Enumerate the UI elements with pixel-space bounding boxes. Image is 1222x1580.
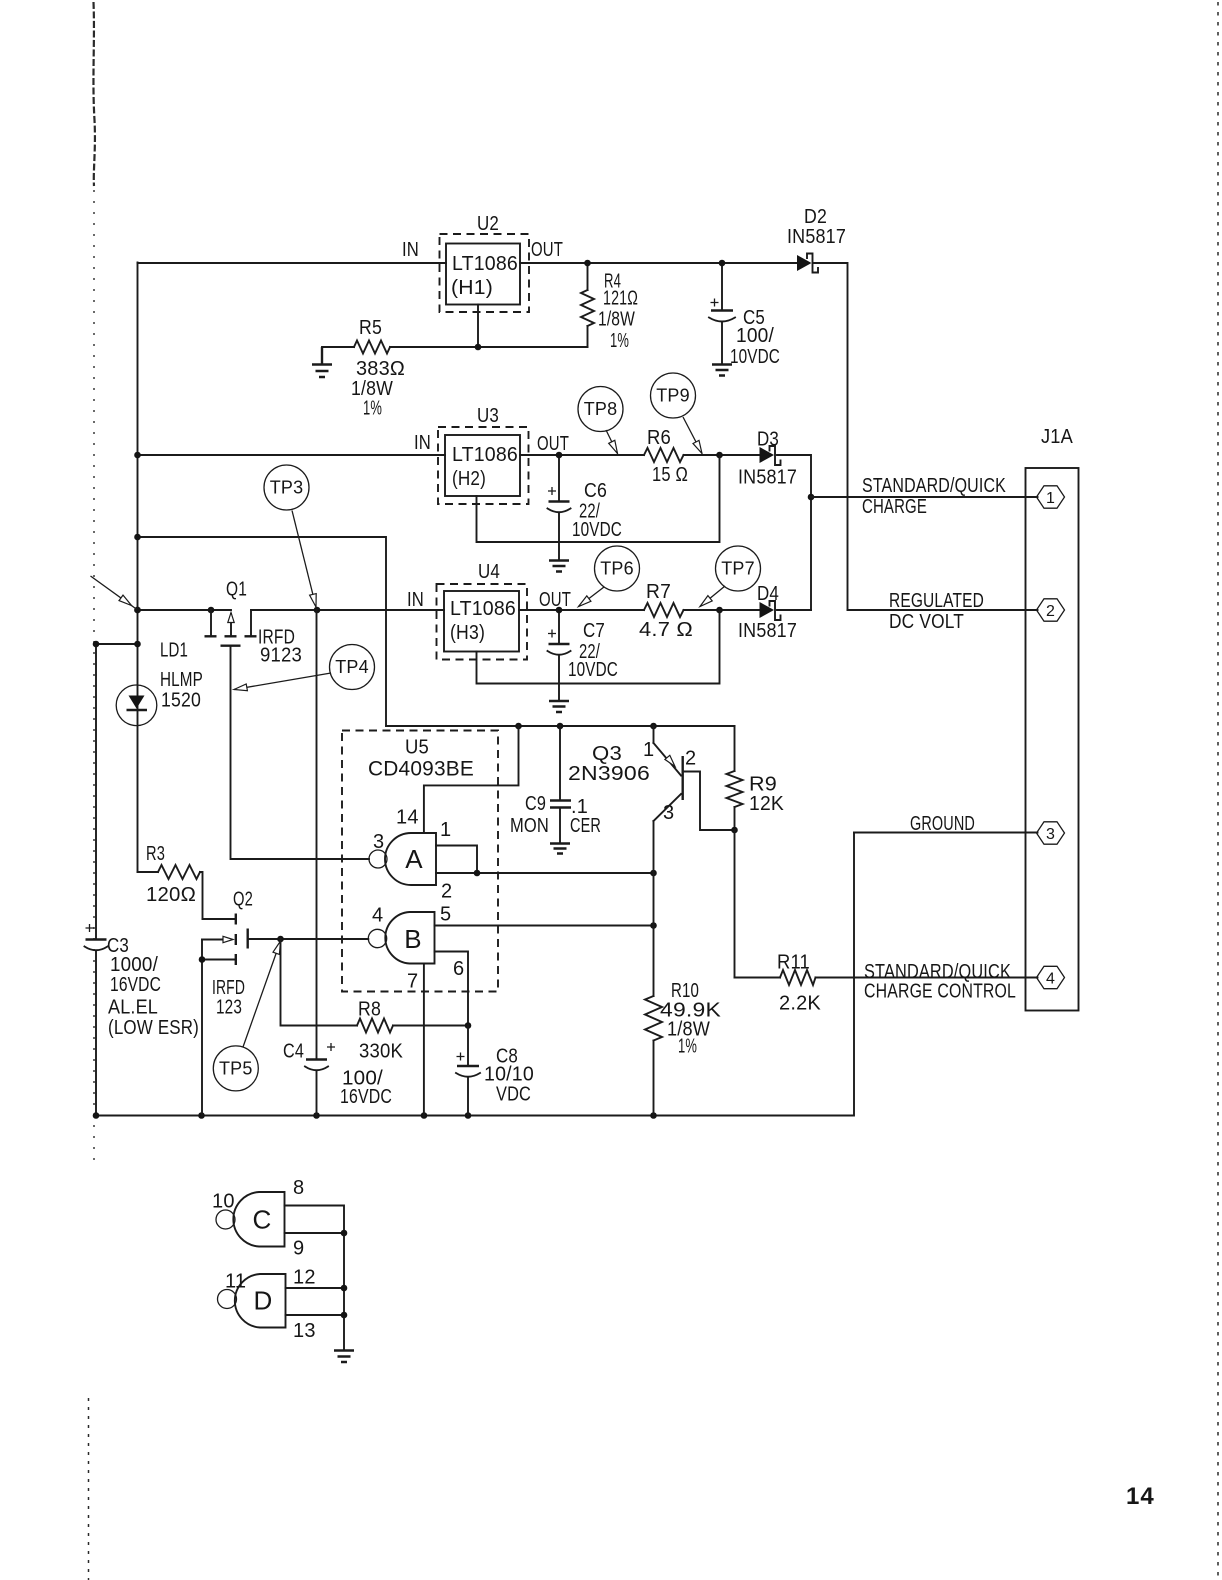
wire: U2 IN horizontal [138,262,447,264]
svg-text:Q1: Q1 [226,579,247,601]
testpoint TP4 [234,645,375,691]
svg-text:1%: 1% [363,398,382,420]
svg-text:1520: 1520 [161,690,201,712]
svg-text:OUT: OUT [539,589,571,611]
regulator U4 LT1086 (H3) [437,584,528,660]
svg-text:C: C [253,1205,272,1235]
svg-text:2: 2 [441,881,452,903]
resistor R8 [357,1019,468,1033]
svg-text:D3: D3 [757,429,779,451]
transistor Q3 2N3906 [654,726,735,830]
svg-text:TP6: TP6 [600,559,634,579]
wire: C4 branch x316.5 [316,610,318,1059]
capacitor C8 10/10VDC [456,1026,480,1116]
svg-text:TP8: TP8 [584,399,618,419]
svg-text:C7: C7 [583,620,605,642]
pin 2 (J1A) [1037,599,1065,621]
ground (gates C D) [334,1351,354,1363]
svg-text:R5: R5 [359,317,382,339]
label C8 10/10 VDC [484,1046,534,1106]
label R8 330K [358,999,403,1063]
svg-text:R11: R11 [777,952,810,974]
nand gate D [218,1274,286,1328]
wire: pin2 net [848,609,1038,611]
svg-text:DC VOLT: DC VOLT [889,611,964,633]
svg-text:CHARGE CONTROL: CHARGE CONTROL [864,981,1016,1003]
resistor R7 [644,603,684,617]
resistor R10 [645,996,662,1116]
junction C5 tap [719,260,726,267]
svg-text:16VDC: 16VDC [110,974,161,996]
svg-text:1%: 1% [610,330,629,352]
wire: pin13 stub [286,1314,345,1316]
junction dots on rails [93,452,657,1119]
wire: U4 OUT to R7 [519,609,644,611]
wire: U4 ADJ loop [477,610,720,684]
svg-text:IN5817: IN5817 [738,467,797,489]
ground (C7) [549,701,569,712]
svg-text:14: 14 [1126,1483,1155,1510]
wire: R9 junction down to R11 [734,830,736,978]
svg-text:U4: U4 [478,561,500,583]
resistor R11 [735,970,816,985]
resistor R5 [322,341,390,354]
capacitor C3 1000/16VDC [85,924,108,950]
svg-text:TP7: TP7 [721,559,755,579]
svg-text:1: 1 [440,819,451,841]
wire: Q2 gate to gate B output [248,938,369,940]
label R6 15Ω [647,427,688,486]
label R9 12K [749,774,784,816]
svg-text:4.7 Ω: 4.7 Ω [639,619,693,641]
svg-text:2: 2 [685,748,696,770]
nand gate B [368,912,434,964]
wire: pin5 to Q3 collector [435,925,654,927]
svg-text:LT1086: LT1086 [452,253,518,275]
junction collector-A [650,870,657,877]
wire: pin12 stub [286,1287,345,1289]
wire: TP5 node to R8 [281,939,358,1026]
pin 4 (J1A) [1037,966,1065,988]
wire: D4 to junction rise [777,609,811,611]
capacitor C7 [548,610,571,700]
wire: +V input rail left vertical [137,263,139,873]
label REGULATED DC VOLT [889,590,984,633]
gate IC U5 CD4093BE dashed box [342,731,498,992]
svg-text:13: 13 [293,1320,316,1342]
svg-text:7: 7 [407,971,418,993]
svg-text:10: 10 [212,1191,235,1213]
LED LD1 HLMP1520 [116,685,157,726]
wire: R7 to D4 [684,609,760,611]
wire: main rail y610 left of Q1 [138,609,232,611]
wire: D2 to J1A pin2 drop [814,263,848,610]
connector J1A box [1026,468,1079,1011]
svg-text:VDC: VDC [496,1084,531,1106]
svg-text:10VDC: 10VDC [568,659,618,681]
label LD1 HLMP 1520 [160,640,203,712]
wire: pin9 stub [285,1232,345,1234]
nand gate C [216,1192,285,1247]
svg-text:120Ω: 120Ω [146,884,196,906]
label R3 120Ω [146,843,196,906]
wire: R6 to D3 [684,454,760,456]
svg-text:3: 3 [1046,826,1055,843]
label R10 49.9K 1/8W 1% [660,980,722,1058]
label Q3 2N3906 [568,743,650,785]
transistor Q1 IRFD9123 [205,610,257,646]
svg-text:IN: IN [402,239,419,261]
label C6 22/ 10VDC [572,480,622,541]
wire: U3 IN horizontal [138,454,446,456]
svg-text:6: 6 [453,958,464,980]
svg-text:STANDARD/QUICK: STANDARD/QUICK [862,475,1006,497]
svg-text:IN5817: IN5817 [738,620,797,642]
wire: pin1 stub [436,846,477,874]
svg-text:TP3: TP3 [270,478,304,498]
label IRFD 9123 [258,627,302,667]
resistor R4 [581,263,594,347]
svg-text:1: 1 [643,739,654,761]
svg-text:C9: C9 [525,793,546,815]
label D3 IN5817 [738,429,797,489]
svg-text:8: 8 [293,1177,304,1199]
svg-text:1%: 1% [678,1036,697,1058]
svg-text:AL.EL: AL.EL [108,997,158,1019]
nand gate A [369,833,436,885]
svg-text:D: D [254,1286,273,1316]
regulator U3 LT1086 (H2) [438,427,529,504]
junction pin1-2 [474,870,481,877]
wire: Q1 gate to gate A output [231,646,370,859]
junction collector-B [650,922,657,929]
wire: Q2 source/body to ground rail [201,940,203,1116]
svg-text:R7: R7 [646,581,671,603]
junction base-R9 [731,827,738,834]
resistor R9 [727,726,743,830]
svg-text:B: B [404,924,422,954]
pin 1 (J1A) [1037,486,1065,508]
label R5 383Ω 1/8W 1% [351,317,405,420]
svg-text:(LOW ESR): (LOW ESR) [108,1017,199,1039]
svg-text:330K: 330K [359,1041,403,1063]
svg-text:14: 14 [396,807,419,829]
regulator U2 LT1086 (H1) [440,234,530,312]
svg-text:OUT: OUT [537,433,569,455]
svg-text:R3: R3 [146,843,165,865]
svg-text:16VDC: 16VDC [340,1086,392,1108]
testpoint TP6 [579,546,640,607]
svg-text:(H1): (H1) [451,277,493,299]
svg-text:LT1086: LT1086 [450,598,516,620]
diode D4 IN5817 [760,601,781,620]
svg-text:10VDC: 10VDC [730,346,780,368]
testpoint TP3 [264,465,316,607]
svg-text:IN: IN [407,589,424,611]
wire: pin4 net from R11 [816,977,1038,979]
svg-text:15 Ω: 15 Ω [652,464,688,486]
label C9 MON .1 CER [510,793,601,837]
wire: node to U5 supply (y537 + x386 drop) [138,537,387,726]
svg-text:1/8W: 1/8W [598,309,635,331]
svg-text:LD1: LD1 [160,640,188,662]
wire: ADJ net y347 [390,346,588,348]
junction diode node [808,494,815,501]
svg-text:10/10: 10/10 [484,1064,534,1086]
svg-text:REGULATED: REGULATED [889,590,984,612]
svg-text:C6: C6 [584,480,607,502]
wire: pin8 stub [285,1206,345,1350]
label C3 1000/ 16VDC AL.EL (LOW ESR) [107,935,199,1039]
diode D2 IN5817 [797,254,818,273]
resistor R6 [644,448,684,462]
svg-text:J1A: J1A [1041,426,1073,448]
junction U2 out [584,260,591,267]
wire: D3 to junction drop [777,455,811,610]
diode D3 IN5817 [760,446,781,465]
wire: U2 ADJ pin down [477,305,479,348]
capacitor C5 [709,263,735,363]
ground (R5) [312,347,332,377]
svg-text:2N3906: 2N3906 [568,763,650,785]
svg-text:2: 2 [1046,603,1055,620]
svg-text:D2: D2 [804,206,827,228]
svg-text:OUT: OUT [531,239,563,261]
svg-text:9: 9 [293,1238,304,1260]
svg-text:123: 123 [216,997,242,1019]
svg-text:IN5817: IN5817 [787,226,846,248]
wire: pin1 net [811,496,1038,498]
wire: U5 supply rail y726 [386,725,735,727]
wire: Q3 collector down [653,821,655,996]
off-page input arrow [91,576,138,610]
svg-text:MON: MON [510,815,549,837]
wire: C3 left rail vertical [95,644,97,1116]
svg-text:A: A [405,844,423,874]
wire: link to C3 rail y644 [96,643,138,645]
resistor R3 [138,865,203,919]
ground (C6) [549,561,569,572]
junction pin13 [341,1312,348,1319]
svg-text:U2: U2 [477,213,499,235]
junction R7 right [716,607,723,614]
svg-text:383Ω: 383Ω [356,358,405,380]
pin 3 (J1A) [1037,822,1065,844]
wire: ground bottom rail [96,833,854,1116]
label C5 100/ 10VDC [730,307,780,368]
svg-text:3: 3 [373,831,384,853]
junction Q2 source [199,956,206,963]
svg-text:D4: D4 [757,583,779,605]
wire: pin6 stub [435,952,469,1026]
junction R6 right [716,452,723,459]
capacitor C9 .1 MON CER [550,726,571,843]
svg-text:4: 4 [1046,971,1055,988]
junction U2 adj [475,344,482,351]
svg-text:U3: U3 [477,405,499,427]
svg-text:12: 12 [293,1267,316,1289]
svg-text:11: 11 [225,1271,246,1293]
svg-text:2.2K: 2.2K [779,993,821,1015]
wire: U2 OUT to D2 [520,262,797,264]
junction U3 out [556,452,563,459]
label D2 IN5817 [787,206,846,248]
svg-text:(H3): (H3) [450,622,485,644]
svg-text:R8: R8 [358,999,381,1021]
svg-text:121Ω: 121Ω [603,288,638,310]
ground (C9) [550,844,570,854]
capacitor C6 [548,455,571,559]
label R11 2.2K [777,952,821,1015]
junction TP5 node [277,936,284,943]
testpoint TP7 [700,546,761,607]
svg-text:TP9: TP9 [656,386,690,406]
svg-text:3: 3 [663,802,674,824]
label IRFD 123 [212,977,245,1019]
testpoint TP9 [651,373,703,454]
svg-text:GROUND: GROUND [910,813,975,835]
svg-text:CHARGE: CHARGE [862,496,927,518]
transistor Q2 IRFD123 [202,914,248,966]
svg-text:Q2: Q2 [233,889,253,911]
svg-text:C4: C4 [283,1041,304,1063]
svg-text:12K: 12K [749,793,784,815]
wire: U3 ADJ loop [477,455,720,542]
svg-text:Q3: Q3 [592,743,622,765]
wire: main rail y610 right of Q1 to U4 IN [251,609,444,611]
svg-text:10VDC: 10VDC [572,519,622,541]
label R7 4.7Ω [639,581,693,641]
junction pin9 [341,1230,348,1237]
svg-text:4: 4 [372,905,383,927]
label D4 IN5817 [738,583,797,642]
label C7 22/ 10VDC [568,620,618,681]
wire: pin3 ground net [854,832,1038,834]
testpoint TP8 [578,387,623,454]
svg-text:CD4093BE: CD4093BE [368,758,474,781]
svg-text:TP4: TP4 [335,657,369,677]
wire: U3 OUT to R6 [520,454,644,456]
capacitor C4 100/16VDC [305,1043,335,1116]
label R4 121Ω 1/8W 1% [598,271,638,353]
label C4 100/ 16VDC [283,1041,392,1109]
svg-text:LT1086: LT1086 [452,444,518,466]
svg-text:1000/: 1000/ [110,954,158,976]
svg-text:1: 1 [1046,490,1055,507]
junction pin12 [341,1285,348,1292]
wire: pins 1-2 to Q3 collector [436,872,654,874]
svg-text:HLMP: HLMP [160,669,203,691]
wire: pin7 VSS [423,964,425,1116]
svg-text:U5: U5 [405,737,429,759]
junction R8-C8-pin6 [465,1022,472,1029]
svg-text:5: 5 [440,904,451,926]
svg-text:IN: IN [414,432,431,454]
ground (C5) [712,365,732,376]
svg-text:100/: 100/ [736,325,774,347]
svg-text:R6: R6 [647,427,671,449]
wire: pin14 VDD [424,726,519,833]
svg-text:CER: CER [570,815,601,837]
testpoint TP5 [213,941,280,1091]
junction U4 out [556,607,563,614]
svg-text:TP5: TP5 [219,1058,253,1078]
label STANDARD/QUICK CHARGE [862,475,1006,518]
svg-text:(H2): (H2) [452,468,486,490]
svg-text:9123: 9123 [260,645,302,667]
label STANDARD/QUICK CHARGE CONTROL [864,961,1016,1003]
